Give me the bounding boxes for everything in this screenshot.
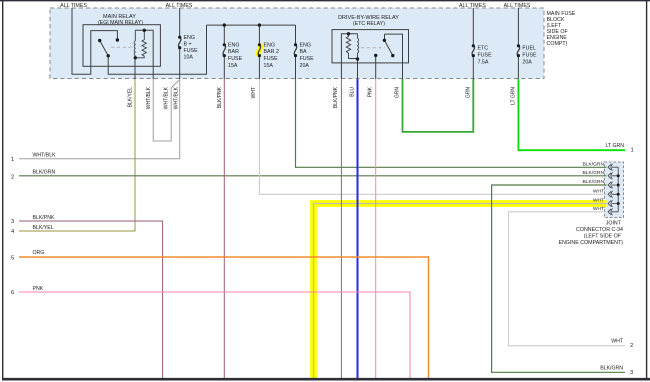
svg-text:JOINT: JOINT [606,221,622,227]
pin 3 [608,182,618,189]
fuse bus junction dots [223,23,226,26]
wire: WHT core of highlighted circuit [314,204,607,379]
wire: FUEL fuse bottom lead [517,56,519,79]
wire 2 BLK/GRN: left row to joint connector pin 2 [19,175,607,177]
main relay coil top lead [135,29,153,31]
wire: BLK/PNK from ETC relay coil down off page [340,79,342,378]
wire: WHT/BLK 1 from coil top (in box) [152,30,154,79]
svg-text:WHT: WHT [251,87,257,98]
fuse F2 ENG BAR 15A [223,45,225,56]
wire: ETC fuse drop (ALL TIMES 3) [472,8,474,46]
main relay arm tip dot [98,39,101,42]
svg-text:ALL TIMES: ALL TIMES [166,3,193,9]
svg-text:BLK/PNK: BLK/PNK [217,86,223,108]
joint connector C-34 dashed box [605,162,624,218]
svg-text:FUEL: FUEL [522,46,536,52]
pin 1 [608,164,618,171]
wire: PNK from ETC pivot contact (in box) [375,55,377,79]
svg-text:ETC: ETC [478,46,489,52]
svg-text:BAR: BAR [228,49,239,55]
wire: BLK/GRN pin 3 loop to right edge 3 [492,185,625,372]
ETC relay switch contact drop [384,34,386,40]
svg-text:FUSE: FUSE [522,52,537,58]
svg-text:BLU: BLU [350,87,356,97]
svg-text:3: 3 [11,219,14,225]
joint connector name [558,221,623,247]
svg-text:FUSE: FUSE [300,56,315,62]
pin 2 [608,172,618,179]
label fuse F2 [228,42,243,69]
wire: BLU from ETC relay coil down off page [357,79,359,378]
label fuse F3 [264,42,279,69]
main relay U1 box [83,25,160,67]
svg-text:ALL TIMES: ALL TIMES [459,3,486,9]
svg-text:7.5A: 7.5A [478,59,489,65]
label main fuse block [547,11,576,47]
svg-text:BLK/PNK: BLK/PNK [33,215,55,221]
bus dot row 3 [617,184,620,187]
svg-text:1: 1 [631,148,634,154]
main relay coil zigzag [135,30,146,58]
wire: WHT pin 6 loop to right edge 2 [509,212,625,346]
svg-text:3: 3 [630,370,633,376]
wire: highlighted WHT circuit (yellow band) [314,204,607,379]
left edge circuit numbers and names [11,153,56,296]
svg-text:BLK/YEL: BLK/YEL [128,87,134,108]
svg-text:1: 1 [11,157,14,163]
main relay coil bottom dot [134,56,137,59]
svg-text:10A: 10A [184,55,194,61]
svg-text:GRN: GRN [466,87,472,99]
ETC relay coil bottom dot [356,57,359,60]
bus dot row 5 [617,202,620,205]
wire 3 BLK/PNK: left row down off page [19,221,163,378]
svg-text:(ETC RELAY): (ETC RELAY) [353,21,385,27]
svg-text:WHT/BLK: WHT/BLK [33,153,57,159]
svg-text:BLK/GRN: BLK/GRN [583,170,605,176]
svg-text:2: 2 [630,343,633,349]
main relay dashed link [111,46,133,48]
svg-text:ENGINE COMPARTMENT): ENGINE COMPARTMENT) [558,240,623,246]
svg-text:BLK/GRN: BLK/GRN [583,161,605,167]
wire: ENG BA fuse top lead [295,25,297,45]
ETC relay U2 box [332,30,409,63]
svg-text:5: 5 [11,255,14,261]
svg-text:BLK/GRN: BLK/GRN [600,365,623,371]
pin 5 [608,200,618,207]
wire: PNK from ETC relay contact down off page [375,79,377,378]
wire: WHT/BLK split diagonal [153,79,180,141]
wire 5 ORG: left row down off page [19,257,429,378]
fuse F6 FUEL 20A [517,46,519,56]
svg-text:ENG: ENG [300,42,311,48]
svg-text:PNK: PNK [33,286,44,292]
wire: main relay pivot to fuse bus [108,25,206,74]
svg-text:WHT: WHT [611,339,624,345]
fuse F1 ENG B+ 10A [178,37,180,48]
main relay pivot dot [107,54,110,57]
pin 6 [608,208,618,215]
svg-text:FUSE: FUSE [478,52,493,58]
svg-text:GRN: GRN [395,87,401,99]
svg-text:PNK: PNK [368,86,374,97]
svg-text:FUSE: FUSE [264,56,279,62]
svg-text:ENG: ENG [184,35,195,41]
svg-text:LT GRN: LT GRN [605,143,624,149]
ETC relay coil top dot [347,32,350,35]
svg-text:WHT: WHT [593,188,604,194]
wire: WHT from ENG BAR 2 fuse to pin 4 [259,79,606,194]
wire: BLK/PNK from ENG BAR fuse down off page [223,79,225,378]
joint connector internal bus [617,167,619,212]
wire: ENG BA fuse bottom lead [295,56,297,79]
svg-text:BLK/PNK: BLK/PNK [333,86,339,108]
svg-text:20A: 20A [300,63,310,69]
frame top [0,0,650,2]
wire: BLK/PNK from ETC coil left (in box) [340,63,342,79]
ETC relay coil top lead [341,34,357,63]
svg-text:(EGI MAIN RELAY): (EGI MAIN RELAY) [98,20,143,26]
svg-text:WHT: WHT [593,206,604,212]
main relay coil left lead with bumps [134,30,135,58]
svg-text:BLK/YEL: BLK/YEL [33,225,54,231]
wire: ENG BAR fuse bottom lead [223,56,225,79]
svg-text:BA: BA [300,49,308,55]
wire: ALL TIMES 1 feed to main relay contact [72,8,117,74]
wire: ENG BAR fuse top lead [223,25,225,45]
main fuse block dashed box (light blue) [50,8,544,79]
svg-text:6: 6 [11,290,14,296]
ETC relay dashed link [361,47,385,49]
svg-text:15A: 15A [264,63,274,69]
wire: ENG BAR 2 fuse bottom lead [258,56,260,79]
wire: fuse bus [207,24,296,26]
svg-text:(LEFT SIDE OF: (LEFT SIDE OF [584,234,622,240]
fuse F3 ENG BAR 2 15A (highlighted) [258,45,260,56]
svg-text:WHT/BLK: WHT/BLK [146,86,152,109]
wire: ENG BAR 2 fuse top lead [258,25,260,45]
joint connector wire labels [583,161,605,212]
ETC relay contact dot [374,54,377,57]
wire: GRN loop ETC relay to ETC fuse [403,79,474,132]
wire: BLK/GRN from ENG BA fuse to pin 1 [296,79,607,167]
svg-text:WHT/BLK: WHT/BLK [164,86,170,109]
svg-text:BLK/GRN: BLK/GRN [583,179,605,185]
svg-text:ENG: ENG [264,42,275,48]
svg-text:BAR 2: BAR 2 [264,49,279,55]
wire 1 WHT/BLK: left row to B+ split [19,79,180,159]
wire 6 PNK: left row down off page [19,292,410,378]
wire: BLK/YEL row 4 [19,79,135,231]
svg-text:FUSE: FUSE [228,56,243,62]
wire: BLK/YEL from coil bottom (in box) [134,58,136,79]
svg-text:20A: 20A [522,59,532,65]
main relay switch arm [100,41,109,56]
main relay contact dot [116,38,119,41]
svg-text:WHT/BLK: WHT/BLK [174,86,180,109]
svg-text:WHT: WHT [593,198,604,204]
frame left [2,0,4,378]
ETC relay switch arm [384,40,392,55]
svg-text:15A: 15A [228,63,238,69]
svg-text:CONNECTOR C-34: CONNECTOR C-34 [576,227,623,233]
svg-text:ALL TIMES: ALL TIMES [60,3,87,9]
fuse F5 ETC 7.5A [472,46,474,56]
wire: BLU from ETC coil bottom (in box) [357,59,359,79]
pin 4 [608,191,618,198]
wire: ENG B+ fuse drop (ALL TIMES 2) [179,8,181,37]
svg-text:B +: B + [184,42,192,48]
svg-text:LT GRN: LT GRN [511,87,517,105]
wire: ETC fuse bottom lead [472,56,474,79]
ETC relay arm tip dot [391,54,394,57]
label fuse F6 [522,46,537,66]
right edge circuit labels [600,143,634,376]
wire: ENG B+ fuse to WHT/BLK split [179,48,181,79]
ETC relay switch top link to GRN [385,34,403,79]
svg-text:ORG: ORG [33,250,45,256]
wire: LT GRN from FUEL fuse to right edge 1 [518,79,625,150]
frame right [646,0,648,380]
rotated wire color labels below box [128,86,517,109]
svg-text:DRIVE-BY-WIRE RELAY: DRIVE-BY-WIRE RELAY [338,15,399,21]
fuse F4 ENG BA 20A [294,45,296,56]
svg-text:2: 2 [11,174,14,180]
ETC relay pivot dot [383,39,386,42]
ETC relay coil right bumps [358,34,359,59]
bus dot row 4 [617,193,620,196]
wire: FUEL fuse drop (ALL TIMES 4) [517,8,519,46]
frame bottom [2,378,650,381]
svg-text:FUSE: FUSE [184,48,199,54]
label fuse F1 [184,35,199,61]
bus dot row 2 [617,174,620,177]
label fuse F5 [478,46,493,66]
main relay coil top dot [143,29,146,32]
svg-text:ENG: ENG [228,42,239,48]
ETC relay coil zigzag [346,34,357,59]
label fuse F4 [300,42,315,69]
svg-text:COMPT): COMPT) [547,41,568,47]
svg-text:ALL TIMES: ALL TIMES [504,3,531,9]
svg-text:BLK/GRN: BLK/GRN [33,170,56,176]
